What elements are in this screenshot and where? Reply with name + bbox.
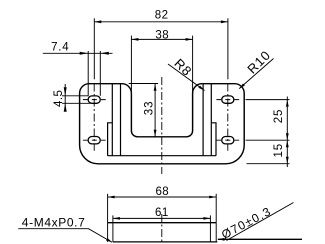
svg-text:7.4: 7.4 bbox=[51, 41, 69, 53]
arrow 15 bottom bbox=[286, 157, 289, 164]
arrow 61 left bbox=[113, 217, 120, 220]
68 dimension line bbox=[108, 196, 217, 198]
slotted hole top-left bbox=[88, 96, 100, 103]
svg-text:4-M4xP0.7: 4-M4xP0.7 bbox=[22, 216, 86, 230]
arrow 68 left bbox=[108, 196, 115, 199]
arrow R10 leader bbox=[239, 84, 245, 89]
25-15 dimension line bbox=[286, 97, 288, 168]
bottom view top edge bbox=[108, 222, 217, 224]
svg-text:61: 61 bbox=[155, 207, 169, 219]
68 extension left bbox=[107, 194, 109, 242]
arrow 68 right bbox=[209, 196, 216, 199]
slotted hole bottom-left bbox=[88, 137, 100, 144]
internal edge left A bbox=[111, 84, 113, 156]
svg-text:25: 25 bbox=[273, 109, 285, 124]
internal edge right A bbox=[210, 84, 212, 156]
cross line top-left hole bbox=[83, 99, 106, 101]
7.4 extension right bbox=[99, 51, 101, 96]
slotted hole top-right bbox=[222, 96, 234, 103]
bottom view centerline bbox=[161, 214, 163, 244]
arrow 61 right bbox=[203, 217, 210, 220]
R8 leader bbox=[168, 64, 205, 91]
arrow 7.4 left bbox=[80, 52, 89, 55]
arrow 82 left bbox=[94, 20, 101, 23]
svg-text:38: 38 bbox=[155, 29, 169, 41]
internal edge left B bbox=[120, 84, 122, 156]
svg-text:15: 15 bbox=[273, 143, 285, 158]
arrow R8 leader bbox=[198, 86, 204, 91]
cross + 15 extension bottom-right bbox=[216, 139, 289, 141]
arrow 15 top bbox=[286, 140, 289, 147]
svg-text:33: 33 bbox=[144, 101, 156, 116]
4.5 extension bottom bbox=[62, 102, 91, 104]
38 extension left bbox=[130, 36, 132, 92]
cross + 25 extension top-right bbox=[216, 99, 289, 101]
4.5 extension top bbox=[62, 95, 89, 97]
arrow 38 right bbox=[186, 38, 193, 41]
cross line bottom-left hole bbox=[83, 139, 106, 141]
left notch bbox=[108, 123, 113, 156]
arrow M4 leader bbox=[106, 238, 112, 242]
arrow 4.5 bottom bbox=[64, 103, 67, 112]
4-M4xP0.7 leader bbox=[18, 229, 112, 243]
82 extension left bbox=[93, 18, 95, 79]
arrow 25 top bbox=[286, 100, 289, 107]
svg-text:4.5: 4.5 bbox=[53, 90, 65, 108]
82 extension right bbox=[227, 18, 229, 79]
38 dimension line bbox=[131, 38, 192, 40]
arrow 25 bottom bbox=[286, 133, 289, 140]
61 extension left bbox=[112, 215, 114, 242]
arrow 38 left bbox=[131, 38, 138, 41]
bottom view bottom edge / leader shoulder bbox=[113, 241, 217, 243]
arrow dia70 leader bbox=[218, 238, 225, 241]
38 extension right bbox=[192, 36, 194, 92]
internal edge right B bbox=[202, 84, 204, 156]
61 dimension line bbox=[113, 217, 210, 219]
bottom edge extension right bbox=[247, 163, 290, 165]
7.4 extension left bbox=[87, 51, 89, 96]
center channel (U slot) with R8 mouth fillets bbox=[122, 84, 202, 137]
arrow 7.4 right bbox=[100, 52, 109, 55]
7.4 dimension line bbox=[43, 52, 113, 54]
svg-text:82: 82 bbox=[155, 10, 169, 22]
svg-text:68: 68 bbox=[155, 186, 169, 198]
arrow 4.5 top bbox=[64, 87, 67, 96]
61 extension right bbox=[209, 215, 211, 242]
4.5 dimension line bbox=[64, 84, 66, 112]
part outer outline with corner radii bbox=[80, 84, 245, 164]
68 extension right bbox=[215, 194, 217, 242]
right notch bbox=[211, 123, 216, 156]
slotted hole bottom-right bbox=[222, 137, 234, 144]
82 dimension line bbox=[94, 21, 228, 23]
33 dimension line bbox=[154, 84, 156, 137]
centerline left holes bbox=[93, 84, 95, 151]
arrow 33 bottom bbox=[154, 130, 157, 137]
step line bbox=[108, 155, 216, 157]
dia 70 leader bbox=[227, 203, 294, 241]
33 top extension line bbox=[129, 83, 158, 85]
leader shoulder line bbox=[218, 238, 302, 240]
arrow 33 top bbox=[154, 84, 157, 91]
main vertical centerline bbox=[161, 77, 163, 174]
arrow 82 right bbox=[221, 20, 228, 23]
R10 leader bbox=[239, 59, 273, 89]
centerline right holes bbox=[227, 84, 229, 151]
